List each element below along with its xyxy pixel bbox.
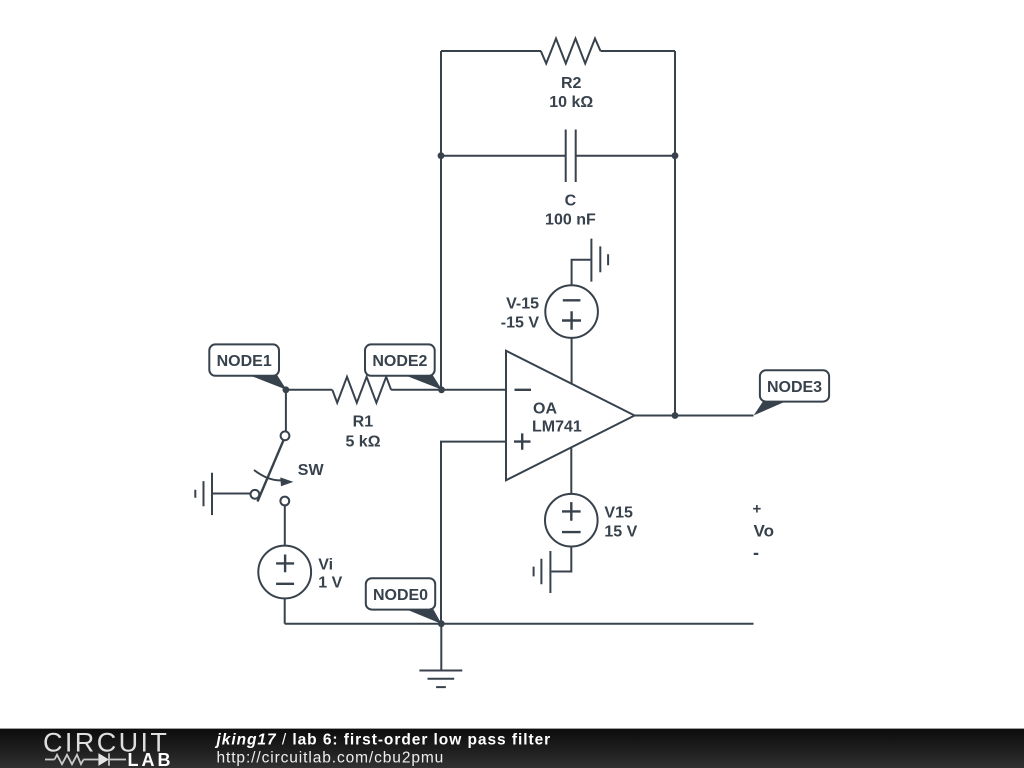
op-amp OA LM741 label: [532, 400, 582, 435]
wire: Vi bottom to ground rail: [284, 598, 286, 623]
resistor R2 value label: [549, 75, 593, 111]
resistor R1: [332, 377, 391, 403]
switch SW arc arrowhead: [280, 477, 293, 486]
wire: V15 bottom lead to ground: [551, 547, 571, 572]
wire: capacitor right lead: [576, 155, 675, 157]
junction node dot at feedback left / capacitor: [438, 152, 445, 159]
Vi value label: [318, 556, 342, 591]
wire: switch bottom to Vi top: [284, 505, 286, 545]
Vi plus sign: [276, 555, 294, 573]
svg-text:LM741: LM741: [532, 418, 582, 435]
svg-text:NODE2: NODE2: [372, 353, 427, 370]
switch SW label: [298, 462, 325, 479]
junction node dot at NODE1: [283, 386, 290, 393]
wire: V-15 bottom lead to op-amp: [571, 338, 573, 384]
switch SW bottom terminal: [280, 497, 289, 506]
wire: NODE1 down to switch: [285, 390, 287, 431]
wire: R1 right lead to op-amp inverting input: [391, 389, 506, 391]
svg-text:-: -: [753, 543, 759, 563]
svg-text:Vi: Vi: [318, 556, 333, 573]
svg-text:OA: OA: [533, 400, 557, 417]
switch SW lever: [258, 441, 284, 502]
svg-text:C: C: [565, 193, 577, 210]
Vi minus sign: [276, 583, 294, 585]
svg-text:LAB: LAB: [128, 750, 174, 768]
op-amp U1 triangle: [506, 351, 635, 481]
voltage source V15 circle: [545, 494, 598, 547]
wire: ground stem at NODE0: [440, 624, 442, 671]
V-15 minus sign: [563, 299, 581, 301]
op-amp inverting input minus sign: [515, 389, 532, 391]
V15 plus sign: [562, 502, 581, 521]
wire: capacitor left lead: [441, 155, 566, 157]
switch SW top terminal: [281, 431, 290, 440]
ground (bottom, at NODE0): [419, 671, 462, 688]
ground (left-facing, below V15): [534, 551, 551, 593]
wire: feedback left vertical (NODE2 up to top loop): [440, 51, 442, 390]
junction node dot at feedback right / capacitor: [672, 152, 679, 159]
svg-text:1 V: 1 V: [318, 575, 342, 592]
voltage source V-15 circle: [545, 285, 598, 338]
switch SW actuation arc: [254, 470, 283, 480]
capacitor C value label: [545, 193, 596, 229]
svg-text:+: +: [753, 501, 762, 518]
wire: op-amp to V15 top lead: [570, 447, 572, 494]
wire: non-inverting input to ground rail: [441, 442, 506, 624]
node flag NODE0: [366, 578, 442, 624]
svg-text:jking17 / lab 6: first-order l: jking17 / lab 6: first-order low pass fi…: [215, 731, 552, 748]
V15 minus sign: [562, 531, 581, 533]
svg-text:http://circuitlab.com/cbu2pmu: http://circuitlab.com/cbu2pmu: [217, 749, 445, 766]
junction node dot at output: [672, 412, 679, 419]
svg-text:R2: R2: [561, 75, 582, 92]
V-15 value label: [501, 296, 540, 332]
resistor R1 value label: [345, 413, 380, 450]
svg-text:10 kΩ: 10 kΩ: [549, 94, 593, 111]
svg-text:NODE1: NODE1: [217, 353, 272, 370]
svg-text:NODE3: NODE3: [767, 379, 822, 396]
output voltage annotation Vo: [753, 501, 774, 563]
wire: V-15 top lead to ground: [572, 260, 591, 286]
wire: top feedback right segment: [601, 50, 676, 52]
capacitor C plates: [566, 130, 576, 183]
junction node dot at NODE0: [438, 620, 445, 627]
svg-text:NODE0: NODE0: [373, 587, 428, 604]
wire: op-amp output: [635, 415, 754, 417]
svg-text:SW: SW: [298, 462, 325, 479]
svg-text:V15: V15: [604, 504, 633, 521]
svg-text:Vo: Vo: [754, 522, 774, 541]
junction node dot at NODE2: [438, 386, 445, 393]
svg-text:15 V: 15 V: [604, 523, 637, 540]
svg-text:100 nF: 100 nF: [545, 211, 596, 228]
voltage source Vi circle: [258, 546, 311, 599]
node flag NODE3: [754, 370, 829, 415]
CircuitLab logo diode triangle: [98, 753, 109, 766]
wire: top feedback left segment: [441, 50, 541, 52]
svg-text:-15 V: -15 V: [501, 314, 540, 331]
op-amp non-inverting input plus sign: [514, 433, 531, 449]
svg-text:V-15: V-15: [506, 296, 539, 313]
ground (right-facing, above V-15): [591, 239, 608, 282]
V-15 plus sign: [562, 311, 581, 330]
node flag NODE1: [209, 344, 286, 389]
switch SW left terminal: [251, 490, 260, 499]
resistor R2: [541, 39, 601, 64]
ground (left of switch): [195, 473, 212, 515]
wire: feedback right vertical: [674, 51, 676, 416]
V15 value label: [604, 504, 637, 540]
CircuitLab logo resistor-diode line: [45, 753, 126, 765]
wire: ground to switch left terminal: [213, 493, 251, 495]
wire: R1 left lead: [286, 389, 332, 391]
node flag NODE2: [365, 344, 442, 389]
svg-text:5 kΩ: 5 kΩ: [345, 433, 380, 450]
wire: bottom ground rail: [285, 623, 754, 625]
svg-text:R1: R1: [353, 413, 374, 430]
